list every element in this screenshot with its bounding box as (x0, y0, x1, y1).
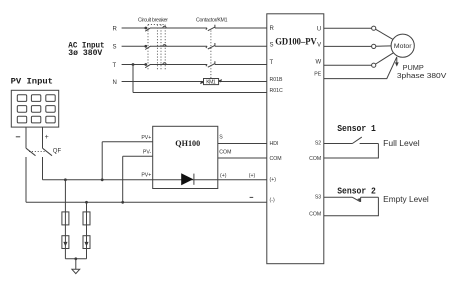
leader arrow to PUMP label (395, 58, 399, 67)
terminal circle on V (372, 44, 376, 48)
junction plus/PV+ tap (101, 178, 104, 181)
sensor 1 title (337, 124, 376, 134)
disconnect switch QF (2 poles) (26, 148, 52, 156)
svg-text:R01B: R01B (270, 77, 284, 83)
wire PV plus down (42, 127, 44, 148)
svg-text:T: T (270, 60, 274, 66)
QH100 pin label (+) (220, 173, 227, 179)
PV minus terminal label (16, 136, 20, 138)
node R (AC phase R label) (113, 26, 118, 32)
svg-text:Full Level: Full Level (383, 139, 420, 148)
svg-text:S: S (270, 43, 274, 49)
sensor 2 switch S3 (empty level, NC contact) (324, 197, 379, 202)
AC Input 3phase 380V label (68, 42, 104, 59)
PV combiner U2 QH100 box (153, 126, 218, 188)
inverter U1 GD100-PV box (267, 14, 324, 264)
motor M1 label (394, 43, 412, 50)
PUMP 3phase 380V label (397, 63, 446, 80)
svg-text:QF: QF (53, 149, 62, 155)
sensor 1 loop wire (324, 144, 379, 159)
svg-text:HDI: HDI (270, 141, 279, 147)
wire PV+ input tap (102, 142, 153, 180)
junction minus/fuse2 (85, 201, 88, 204)
wire plus bus (43, 157, 153, 180)
svg-text:COM: COM (309, 212, 321, 218)
motor M1 (391, 34, 414, 57)
wire minus bus (26, 157, 267, 202)
QH100 pin label PV- (143, 149, 152, 155)
svg-text:Sensor 1: Sensor 1 (337, 124, 376, 134)
svg-text:KM1: KM1 (206, 80, 216, 86)
terminal circle on U (372, 26, 376, 30)
svg-text:V: V (317, 42, 321, 48)
inverter U1 title (275, 36, 317, 46)
svg-text:3phase 380V: 3phase 380V (397, 71, 446, 80)
wire surge join (65, 258, 86, 260)
Full Level label (383, 139, 420, 148)
svg-text:PE: PE (314, 72, 321, 78)
svg-text:PV-: PV- (143, 149, 152, 155)
wire R (122, 27, 267, 29)
wire surge string 2 (86, 202, 88, 258)
fuse F2 (83, 212, 90, 225)
wire T tap down to R01C (133, 65, 267, 93)
svg-text:PV+: PV+ (141, 173, 151, 179)
svg-text:T: T (113, 63, 117, 69)
node S (AC phase S label) (113, 45, 117, 51)
PV Input label (11, 76, 53, 86)
wire V to motor (324, 45, 391, 48)
PV plus terminal label (45, 134, 49, 141)
inverter U1 left pin labels (270, 26, 284, 204)
surge arrester RV1 (62, 236, 69, 249)
node T (AC phase T label) (113, 63, 117, 69)
QF label (53, 149, 62, 155)
svg-text:PV+: PV+ (141, 135, 151, 141)
svg-text:W: W (316, 59, 322, 65)
svg-text:(-): (-) (270, 198, 275, 204)
sensor 1 switch S2 (full level, NO contact) (324, 137, 379, 143)
surge arrester RV2 (83, 236, 90, 249)
svg-text:(+): (+) (270, 177, 277, 183)
sensor 2 loop wire (324, 197, 379, 216)
svg-text:Empty Level: Empty Level (383, 195, 429, 204)
svg-text:COM: COM (270, 156, 282, 162)
svg-text:R: R (270, 26, 275, 32)
svg-text:U: U (317, 26, 321, 32)
wire PV- input tap (123, 156, 153, 202)
svg-text:PV Input: PV Input (11, 76, 53, 86)
svg-text:R01C: R01C (270, 88, 284, 94)
wire (+) through QH100 with diode (153, 179, 267, 181)
svg-text:+: + (45, 134, 49, 141)
contactor KM1 label (196, 18, 228, 24)
QH100 pin label COM (219, 150, 231, 156)
wire W to motor (324, 53, 394, 65)
svg-text:Circuit breaker: Circuit breaker (138, 17, 168, 23)
svg-text:COM: COM (219, 150, 231, 156)
contactor coil KM1 value label (206, 80, 216, 86)
svg-text:S2: S2 (315, 141, 321, 147)
diode D1 (181, 173, 194, 185)
wire PV minus down (25, 127, 27, 148)
svg-text:S: S (219, 135, 223, 141)
svg-text:(+): (+) (249, 173, 256, 179)
svg-text:COM: COM (309, 156, 321, 162)
wire U to motor (324, 28, 393, 39)
terminal circle on W (372, 63, 376, 67)
svg-text:GD100–PV: GD100–PV (275, 36, 317, 46)
wire N (122, 81, 267, 83)
fuse F1 (62, 212, 69, 225)
junction surge/ground (74, 257, 77, 260)
QH100 pin label PV+ (2) (141, 173, 151, 179)
svg-text:S3: S3 (315, 195, 321, 201)
svg-text:Contactor/KM1: Contactor/KM1 (196, 18, 228, 24)
QH100 pin label PV+ (1) (141, 135, 151, 141)
contactor coil KM1 (200, 79, 222, 85)
junction plus/fuse1 (64, 178, 67, 181)
inverter U1 right pin labels (309, 26, 322, 217)
svg-text:(+): (+) (220, 173, 227, 179)
svg-text:QH100: QH100 (175, 138, 200, 148)
ground (72, 259, 80, 274)
svg-text:S: S (113, 45, 117, 51)
wire T (122, 64, 267, 66)
node - wire label near inverter (250, 196, 254, 198)
wire PE to motor (324, 57, 397, 79)
svg-text:3ø 380V: 3ø 380V (68, 49, 102, 58)
junction minus/PV- tap (121, 201, 124, 204)
svg-text:Motor: Motor (394, 43, 412, 50)
wire surge string 1 (64, 180, 66, 259)
wire S (122, 45, 267, 47)
Empty Level label (383, 195, 429, 204)
wire COM output to COM (218, 157, 267, 159)
PV combiner U2 title (175, 138, 200, 148)
sensor 2 title (337, 186, 376, 196)
junction on T line (tap to R01C) (132, 63, 135, 66)
QH100 pin label S (219, 135, 223, 141)
svg-text:R: R (113, 26, 118, 32)
circuit breaker QF1 (3 poles) (144, 25, 166, 70)
svg-text:N: N (113, 80, 117, 86)
circuit breaker QF1 label (138, 17, 168, 23)
node (+) wire label near inverter (249, 173, 256, 179)
PV array panel (11, 90, 58, 127)
wire S output to HDI (218, 143, 267, 145)
node N (AC neutral label) (113, 80, 117, 86)
svg-text:Sensor 2: Sensor 2 (337, 186, 376, 196)
contactor KM1 main contacts (3 poles) (206, 25, 215, 79)
